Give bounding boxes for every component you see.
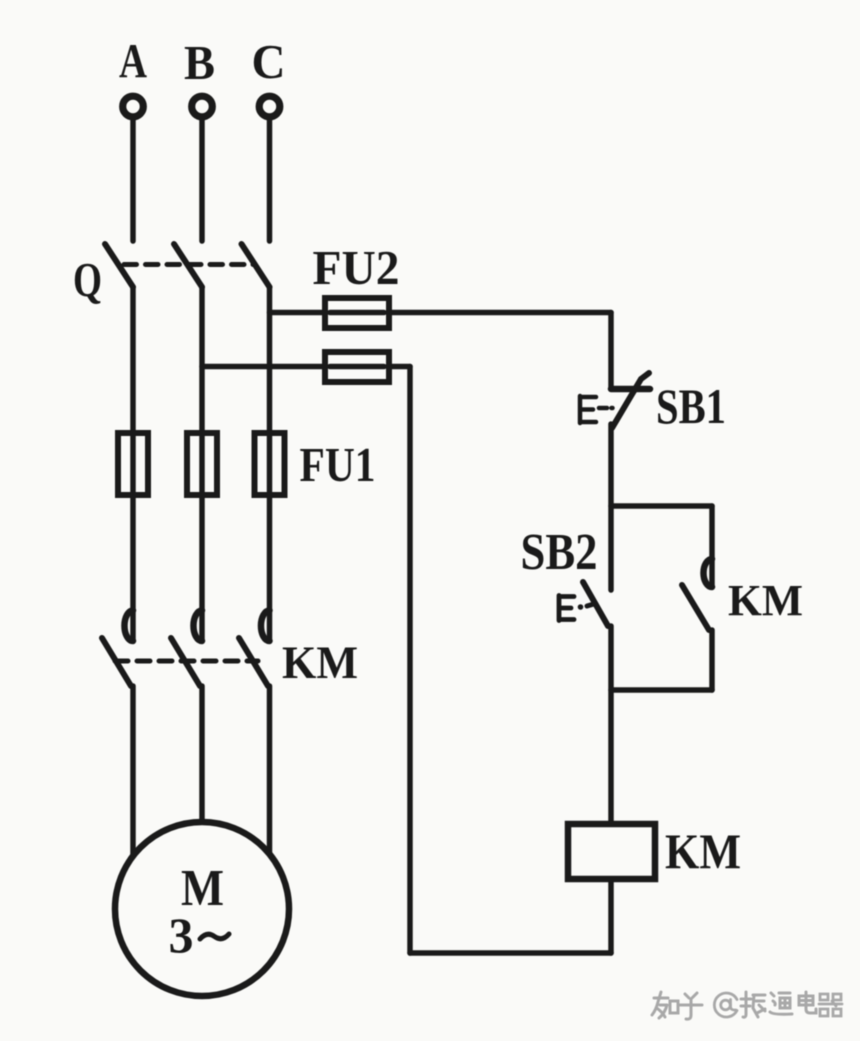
switch Q blade pole C (242, 244, 270, 287)
contactor KM coil (568, 824, 655, 879)
contactor KM main linkage dashed line (115, 659, 258, 664)
terminal B (192, 96, 213, 117)
svg-text:KM: KM (282, 637, 358, 689)
contactor KM main contact hook pole A (124, 611, 133, 642)
wire: bottom junction horizontal (611, 687, 712, 693)
contactor KM aux contact blade (NO) (682, 585, 709, 630)
contactor KM aux contact hook (704, 559, 713, 587)
svg-text:A: A (119, 33, 147, 88)
contactor KM main contact blade pole A (102, 638, 131, 686)
wire: control branch down to SB1 (608, 313, 614, 389)
watermark zhihu @zhentong dianqi (652, 992, 842, 1019)
switch Q blade pole B (174, 244, 202, 287)
wire: bottom rail horizontal (410, 950, 611, 956)
wire C to switch Q (267, 117, 273, 241)
wire: KM aux branch down to contact (709, 506, 715, 587)
fuse FU2 lower cartridge (325, 352, 389, 382)
svg-text:C: C (252, 34, 286, 89)
wire: right control rail down (407, 367, 413, 954)
wire C: KM contact to motor (267, 686, 273, 854)
wire C: Q to KM contact (267, 287, 273, 641)
fuse FU1 cartridge phase C (255, 433, 285, 495)
switch Q blade pole A (105, 244, 133, 287)
wire: KM aux contact to bottom junction (709, 630, 715, 690)
wire: SB2 to bottom junction and KM coil (608, 626, 614, 824)
contactor KM main contact blade pole C (239, 638, 268, 686)
switch Q linkage dashed line (124, 262, 255, 267)
contactor KM main contact hook pole B (193, 611, 202, 642)
wire A: Q to KM contact (130, 287, 136, 641)
terminal C (259, 96, 280, 117)
svg-text:SB2: SB2 (521, 524, 598, 581)
wire: junction to KM aux branch (top) (611, 503, 712, 509)
svg-text:3: 3 (169, 907, 194, 963)
wire: KM coil to bottom rail (608, 879, 614, 953)
fuse FU1 cartridge phase B (187, 433, 217, 495)
svg-text:KM: KM (728, 576, 803, 625)
wire: phase C tap to control circuit (through FU2 upper fuse) (270, 310, 612, 316)
pushbutton SB2 actuator E (559, 596, 574, 621)
terminal A (123, 96, 144, 117)
svg-text:FU1: FU1 (300, 437, 376, 492)
svg-text:FU2: FU2 (313, 240, 400, 295)
motor M circle (115, 822, 289, 996)
wire A: KM contact to motor (130, 686, 136, 856)
pushbutton SB1 actuator link dash-dot (599, 406, 613, 411)
wire A to switch Q (130, 117, 136, 241)
wire: phase B tap to control circuit (through FU2 lower fuse) (202, 364, 410, 370)
svg-text:KM: KM (665, 823, 741, 879)
pushbutton SB2 actuator link dash-dot (578, 604, 584, 610)
pushbutton SB1 fixed contact bar (611, 386, 650, 393)
pushbutton SB1 blade (NC) (612, 373, 649, 428)
wire: SB1 to junction (608, 424, 614, 590)
fuse FU1 cartridge phase A (118, 433, 148, 495)
svg-text:B: B (184, 35, 215, 90)
pushbutton SB2 blade (NO) (583, 582, 608, 626)
pushbutton SB1 actuator E (580, 396, 596, 423)
wire B: Q to KM contact (199, 287, 205, 641)
fuse FU2 upper cartridge (325, 298, 389, 328)
wire B: KM contact to motor (199, 686, 205, 824)
wire B to switch Q (199, 117, 205, 241)
contactor KM main contact blade pole B (171, 638, 200, 686)
contactor KM main contact hook pole C (261, 611, 270, 642)
svg-text:SB1: SB1 (656, 378, 726, 434)
svg-text:Q: Q (73, 252, 102, 307)
